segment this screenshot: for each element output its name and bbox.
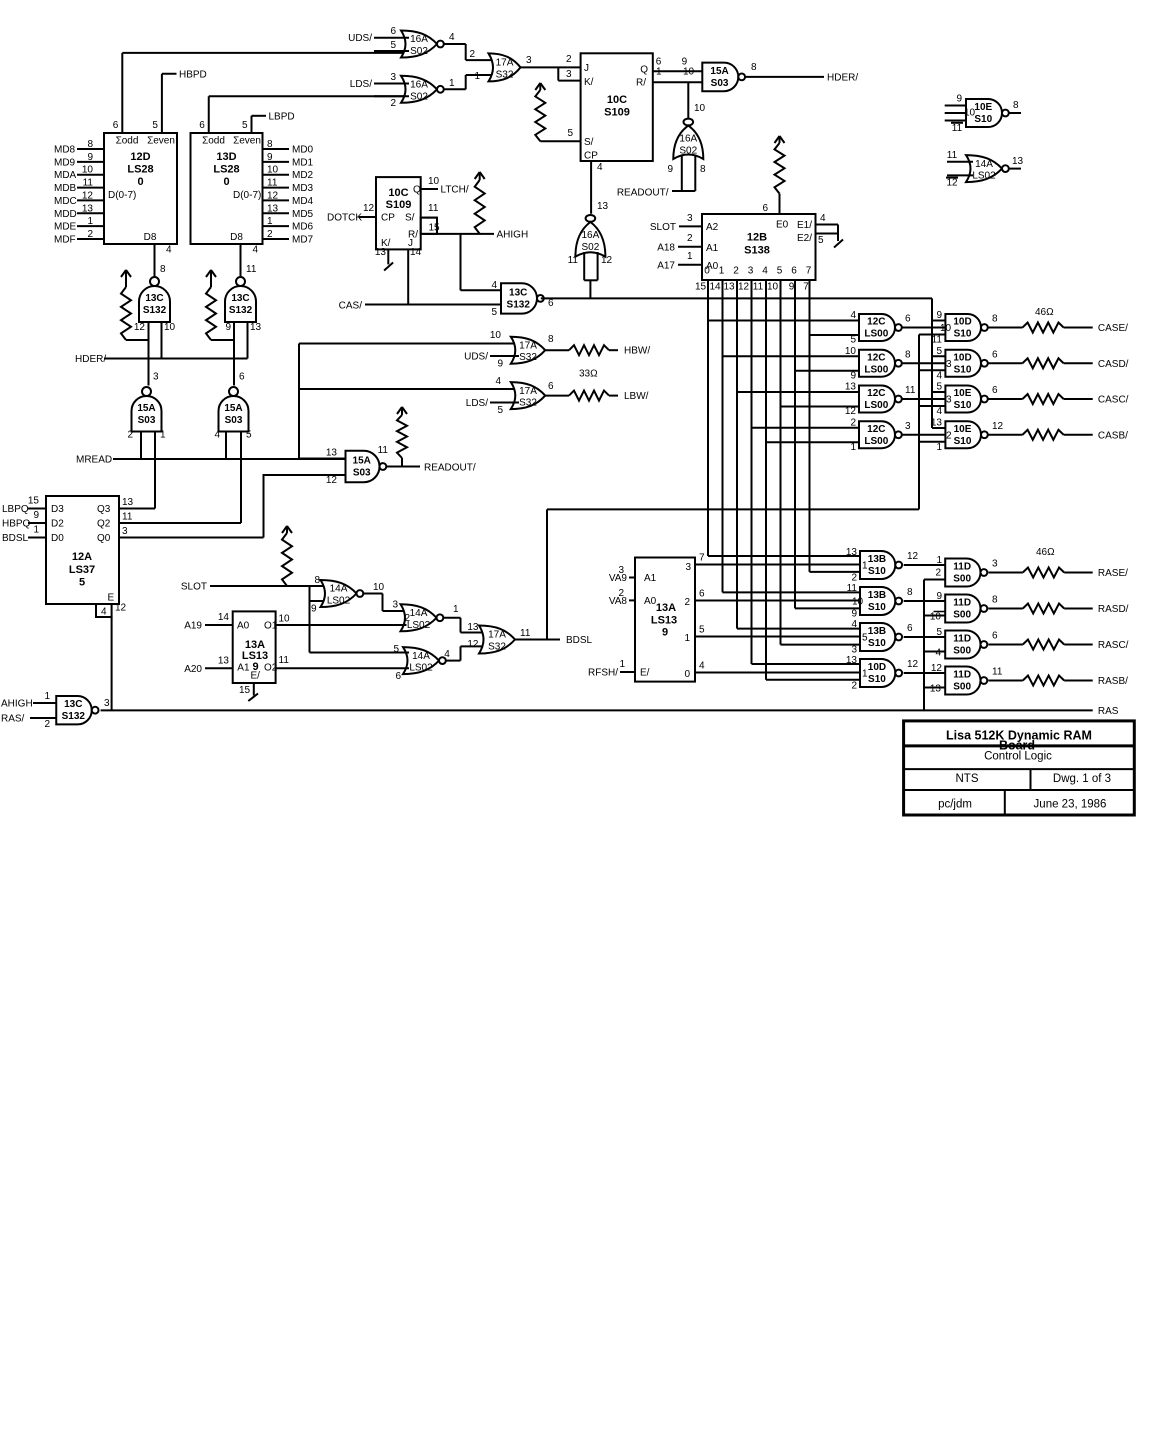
svg-text:3: 3 [687, 213, 693, 224]
svg-text:17A: 17A [519, 386, 537, 397]
svg-text:Σodd: Σodd [202, 136, 225, 147]
svg-text:S10: S10 [868, 602, 886, 613]
svg-text:R/: R/ [636, 78, 646, 89]
svg-text:CP: CP [584, 151, 598, 162]
svg-text:LBPQ: LBPQ [2, 504, 29, 515]
svg-text:2: 2 [851, 573, 857, 584]
svg-text:LS28: LS28 [213, 164, 239, 176]
svg-text:11: 11 [932, 335, 943, 346]
svg-text:S32: S32 [488, 642, 506, 653]
svg-text:S132: S132 [62, 711, 86, 722]
svg-text:13: 13 [930, 684, 942, 695]
svg-text:13: 13 [250, 322, 262, 333]
svg-text:10: 10 [964, 108, 976, 119]
svg-text:S109: S109 [604, 107, 630, 119]
svg-text:10: 10 [694, 103, 706, 114]
svg-text:5: 5 [242, 120, 248, 131]
svg-text:11D: 11D [953, 634, 971, 645]
svg-text:S10: S10 [954, 436, 972, 447]
svg-text:Q3: Q3 [97, 504, 111, 515]
svg-text:1: 1 [850, 442, 856, 453]
svg-text:9: 9 [936, 310, 942, 321]
svg-text:D(0-7): D(0-7) [108, 190, 136, 201]
svg-text:RAS/: RAS/ [1, 714, 25, 725]
svg-text:10D: 10D [953, 317, 971, 328]
svg-text:K/: K/ [584, 77, 594, 88]
svg-text:15: 15 [695, 282, 707, 293]
svg-text:Q: Q [640, 65, 648, 76]
svg-text:3: 3 [905, 421, 911, 432]
svg-text:12: 12 [907, 551, 919, 562]
svg-text:5: 5 [79, 577, 85, 589]
svg-text:46Ω: 46Ω [1036, 547, 1055, 558]
svg-text:11D: 11D [953, 562, 971, 573]
svg-text:10: 10 [267, 165, 279, 176]
svg-text:12: 12 [115, 603, 127, 614]
svg-text:RASD/: RASD/ [1098, 604, 1129, 615]
svg-text:S03: S03 [138, 415, 156, 426]
svg-text:CASE/: CASE/ [1098, 323, 1128, 334]
svg-text:1: 1 [862, 561, 868, 572]
svg-text:Σeven: Σeven [147, 136, 175, 147]
svg-text:13: 13 [375, 247, 387, 258]
svg-text:9: 9 [851, 609, 857, 620]
svg-text:3: 3 [685, 562, 691, 573]
svg-text:CASC/: CASC/ [1098, 395, 1129, 406]
svg-text:10: 10 [940, 323, 952, 334]
svg-text:16A: 16A [410, 80, 428, 91]
svg-text:1: 1 [719, 266, 725, 277]
svg-text:6: 6 [762, 203, 768, 214]
svg-text:HBPQ: HBPQ [2, 519, 31, 530]
svg-text:E/: E/ [251, 670, 261, 681]
svg-text:2: 2 [44, 719, 50, 730]
svg-text:LS02: LS02 [409, 663, 433, 674]
svg-text:12: 12 [992, 421, 1004, 432]
svg-text:1: 1 [862, 669, 868, 680]
svg-text:9: 9 [667, 164, 673, 175]
svg-text:MD0: MD0 [292, 145, 314, 156]
svg-text:13: 13 [846, 655, 858, 666]
svg-text:D0: D0 [51, 533, 64, 544]
svg-text:6: 6 [239, 372, 245, 383]
svg-text:14: 14 [709, 282, 721, 293]
svg-text:10: 10 [164, 322, 176, 333]
svg-text:9: 9 [87, 152, 93, 163]
svg-text:6: 6 [791, 266, 797, 277]
svg-text:8: 8 [87, 139, 93, 150]
svg-text:1: 1 [684, 633, 690, 644]
svg-text:13: 13 [326, 448, 338, 459]
svg-text:S10: S10 [868, 638, 886, 649]
svg-text:4: 4 [166, 245, 172, 256]
svg-text:12C: 12C [867, 424, 885, 435]
svg-text:11: 11 [122, 512, 133, 523]
svg-text:DOTCK: DOTCK [327, 213, 362, 224]
svg-text:S03: S03 [711, 78, 729, 89]
svg-text:A19: A19 [184, 621, 202, 632]
svg-text:11: 11 [847, 583, 858, 594]
svg-text:S109: S109 [386, 199, 412, 211]
svg-text:S10: S10 [868, 566, 886, 577]
svg-text:10: 10 [373, 582, 385, 593]
svg-text:12A: 12A [72, 551, 92, 563]
svg-text:S03: S03 [353, 468, 371, 479]
svg-text:9: 9 [497, 359, 503, 370]
svg-text:10E: 10E [954, 424, 972, 435]
svg-text:7: 7 [806, 266, 812, 277]
svg-text:4: 4 [936, 370, 942, 381]
svg-text:2: 2 [733, 266, 739, 277]
svg-text:S32: S32 [496, 69, 514, 80]
svg-text:46Ω: 46Ω [1035, 307, 1054, 318]
svg-text:S02: S02 [410, 91, 428, 102]
svg-text:8: 8 [267, 139, 273, 150]
svg-text:MDB: MDB [54, 183, 77, 194]
svg-text:10: 10 [683, 66, 695, 77]
svg-text:Dwg. 1 of 3: Dwg. 1 of 3 [1053, 773, 1111, 785]
svg-text:1: 1 [267, 216, 273, 227]
svg-text:14: 14 [218, 612, 230, 623]
svg-text:5: 5 [390, 40, 396, 51]
svg-text:10D: 10D [868, 662, 886, 673]
svg-text:1: 1 [87, 216, 93, 227]
svg-text:13B: 13B [868, 590, 886, 601]
svg-text:10: 10 [428, 176, 440, 187]
svg-text:CASB/: CASB/ [1098, 430, 1128, 441]
svg-text:4: 4 [762, 266, 768, 277]
svg-text:12: 12 [267, 190, 279, 201]
svg-text:RFSH/: RFSH/ [588, 668, 618, 679]
svg-text:5: 5 [567, 128, 573, 139]
svg-text:6: 6 [113, 120, 119, 131]
svg-text:14A: 14A [412, 651, 430, 662]
svg-text:MDF: MDF [54, 234, 76, 245]
svg-text:15A: 15A [224, 403, 242, 414]
svg-text:11: 11 [279, 655, 290, 666]
svg-text:6: 6 [992, 385, 998, 396]
svg-text:3: 3 [392, 600, 398, 611]
svg-text:HBW/: HBW/ [624, 346, 650, 357]
svg-text:LS13: LS13 [651, 615, 677, 627]
svg-text:12: 12 [931, 663, 943, 674]
svg-text:13: 13 [122, 497, 134, 508]
svg-text:S00: S00 [953, 646, 971, 657]
svg-text:S32: S32 [519, 352, 537, 363]
svg-text:12C: 12C [867, 388, 885, 399]
svg-text:S10: S10 [954, 364, 972, 375]
svg-text:MD6: MD6 [292, 222, 314, 233]
svg-text:MD4: MD4 [292, 196, 314, 207]
svg-text:2: 2 [851, 681, 857, 692]
svg-text:8: 8 [700, 164, 706, 175]
svg-text:0: 0 [137, 176, 143, 188]
svg-text:UDS/: UDS/ [464, 352, 488, 363]
svg-text:3: 3 [618, 565, 624, 576]
svg-text:UDS/: UDS/ [348, 33, 372, 44]
svg-text:2: 2 [687, 233, 693, 244]
svg-text:CAS/: CAS/ [339, 301, 363, 312]
svg-text:LS00: LS00 [864, 364, 888, 375]
svg-text:13: 13 [845, 382, 857, 393]
svg-text:4: 4 [850, 310, 856, 321]
svg-text:17A: 17A [488, 630, 506, 641]
svg-text:15: 15 [239, 685, 251, 696]
svg-text:8: 8 [992, 314, 998, 325]
svg-text:3: 3 [122, 526, 128, 537]
svg-text:LDS/: LDS/ [350, 79, 372, 90]
svg-text:11: 11 [905, 385, 916, 396]
svg-text:MDA: MDA [54, 170, 77, 181]
svg-text:10: 10 [845, 346, 857, 357]
svg-text:10: 10 [767, 282, 779, 293]
svg-text:11: 11 [952, 123, 963, 134]
svg-text:9: 9 [850, 370, 856, 381]
svg-text:S02: S02 [582, 242, 600, 253]
svg-text:1: 1 [160, 430, 166, 441]
svg-text:S10: S10 [954, 400, 972, 411]
svg-text:6: 6 [992, 631, 998, 642]
svg-text:13: 13 [597, 201, 609, 212]
svg-text:8: 8 [905, 349, 911, 360]
svg-text:10: 10 [930, 612, 942, 623]
svg-text:3: 3 [851, 645, 857, 656]
svg-text:MD2: MD2 [292, 170, 314, 181]
svg-text:12: 12 [845, 406, 857, 417]
svg-text:AHIGH: AHIGH [1, 699, 33, 710]
svg-text:2: 2 [404, 613, 410, 624]
svg-text:4: 4 [491, 280, 497, 291]
svg-text:13: 13 [82, 203, 94, 214]
svg-text:MDC: MDC [54, 196, 77, 207]
svg-text:LDS/: LDS/ [466, 398, 488, 409]
svg-text:5: 5 [491, 307, 497, 318]
svg-text:BDSL: BDSL [2, 533, 29, 544]
svg-text:33Ω: 33Ω [579, 369, 598, 380]
svg-text:11: 11 [520, 628, 531, 639]
svg-text:12: 12 [467, 639, 479, 650]
svg-text:S/: S/ [405, 213, 415, 224]
svg-text:READOUT/: READOUT/ [617, 188, 669, 199]
svg-text:A1: A1 [644, 573, 657, 584]
svg-text:CP: CP [381, 213, 395, 224]
svg-text:LS13: LS13 [242, 650, 268, 662]
svg-text:15: 15 [28, 496, 40, 507]
svg-text:8: 8 [1013, 100, 1019, 111]
svg-text:1: 1 [936, 555, 942, 566]
svg-text:13B: 13B [868, 626, 886, 637]
svg-text:MD8: MD8 [54, 145, 76, 156]
svg-text:S02: S02 [410, 46, 428, 57]
svg-text:12B: 12B [747, 232, 767, 244]
svg-text:14A: 14A [410, 608, 428, 619]
svg-text:8: 8 [314, 575, 320, 586]
svg-text:6: 6 [548, 298, 554, 309]
svg-text:A17: A17 [657, 261, 675, 272]
svg-text:2: 2 [684, 597, 690, 608]
svg-text:2: 2 [87, 229, 93, 240]
svg-text:5: 5 [699, 625, 705, 636]
svg-text:13: 13 [218, 656, 230, 667]
svg-text:15A: 15A [137, 403, 155, 414]
svg-text:S03: S03 [225, 415, 243, 426]
svg-text:16A: 16A [582, 230, 600, 241]
svg-text:LS00: LS00 [864, 329, 888, 340]
svg-text:Control Logic: Control Logic [984, 751, 1052, 763]
svg-text:11: 11 [428, 203, 439, 214]
svg-text:1: 1 [474, 71, 480, 82]
svg-text:LS28: LS28 [127, 164, 153, 176]
svg-text:12D: 12D [130, 151, 150, 163]
svg-text:14A: 14A [330, 584, 348, 595]
svg-text:12C: 12C [867, 317, 885, 328]
svg-text:4: 4 [935, 648, 941, 659]
svg-text:MREAD: MREAD [76, 455, 112, 466]
svg-text:1: 1 [33, 525, 39, 536]
svg-text:4: 4 [936, 406, 942, 417]
svg-text:D8: D8 [230, 232, 243, 243]
svg-text:11: 11 [753, 282, 764, 293]
svg-text:D3: D3 [51, 504, 64, 515]
svg-text:J: J [584, 63, 589, 74]
svg-text:7: 7 [699, 553, 705, 564]
svg-text:A1: A1 [237, 663, 250, 674]
svg-text:4: 4 [101, 607, 107, 618]
svg-text:7: 7 [803, 282, 809, 293]
svg-text:9: 9 [311, 604, 317, 615]
svg-text:13A: 13A [656, 602, 676, 614]
svg-text:5: 5 [936, 627, 942, 638]
svg-text:Q: Q [413, 185, 421, 196]
svg-text:5: 5 [152, 120, 158, 131]
svg-text:13C: 13C [64, 699, 82, 710]
svg-text:1: 1 [936, 442, 942, 453]
svg-text:13: 13 [1012, 156, 1024, 167]
svg-text:2: 2 [390, 98, 396, 109]
svg-text:MD5: MD5 [292, 209, 314, 220]
svg-text:12: 12 [601, 255, 613, 266]
svg-text:14A: 14A [975, 159, 993, 170]
svg-text:4: 4 [214, 430, 220, 441]
svg-text:RASE/: RASE/ [1098, 568, 1128, 579]
svg-text:5: 5 [777, 266, 783, 277]
svg-text:15A: 15A [710, 66, 728, 77]
svg-text:6: 6 [992, 349, 998, 360]
svg-text:0: 0 [704, 266, 710, 277]
svg-text:13B: 13B [868, 554, 886, 565]
svg-text:9: 9 [789, 282, 795, 293]
svg-text:2: 2 [469, 49, 475, 60]
svg-text:E2/: E2/ [797, 233, 812, 244]
svg-text:Q2: Q2 [97, 519, 111, 530]
svg-text:0: 0 [684, 669, 690, 680]
svg-text:LS37: LS37 [69, 564, 95, 576]
svg-text:S/: S/ [584, 137, 594, 148]
svg-text:LBPD: LBPD [269, 112, 295, 123]
svg-text:4: 4 [699, 661, 705, 672]
svg-text:9: 9 [662, 627, 668, 639]
svg-text:13C: 13C [509, 287, 527, 298]
svg-text:12: 12 [134, 322, 146, 333]
svg-text:HBPD: HBPD [179, 70, 207, 81]
svg-text:11: 11 [568, 255, 579, 266]
svg-text:6: 6 [905, 314, 911, 325]
svg-text:3: 3 [566, 69, 572, 80]
svg-text:1: 1 [449, 78, 455, 89]
svg-text:Σeven: Σeven [233, 136, 261, 147]
svg-text:MD7: MD7 [292, 234, 314, 245]
svg-text:1: 1 [619, 659, 625, 670]
svg-text:1: 1 [453, 604, 459, 615]
svg-text:MD3: MD3 [292, 183, 314, 194]
svg-text:0: 0 [223, 176, 229, 188]
svg-text:13C: 13C [145, 293, 163, 304]
svg-text:9: 9 [267, 152, 273, 163]
svg-text:2: 2 [850, 417, 856, 428]
svg-text:S132: S132 [229, 305, 253, 316]
svg-text:2: 2 [618, 588, 624, 599]
svg-text:6: 6 [199, 120, 205, 131]
svg-text:10D: 10D [953, 352, 971, 363]
svg-text:13D: 13D [216, 151, 236, 163]
svg-text:8: 8 [160, 264, 166, 275]
svg-text:12: 12 [738, 282, 750, 293]
svg-text:5: 5 [936, 346, 942, 357]
svg-text:E: E [108, 593, 115, 604]
svg-text:3: 3 [104, 698, 110, 709]
svg-text:3: 3 [946, 395, 952, 406]
svg-text:S00: S00 [953, 682, 971, 693]
svg-text:12: 12 [82, 190, 94, 201]
svg-text:S138: S138 [744, 245, 770, 257]
svg-text:8: 8 [751, 62, 757, 73]
svg-text:CASD/: CASD/ [1098, 359, 1129, 370]
svg-text:1: 1 [44, 691, 50, 702]
svg-text:SLOT: SLOT [650, 222, 676, 233]
svg-text:A2: A2 [706, 222, 719, 233]
svg-text:HDER/: HDER/ [75, 354, 106, 365]
svg-text:9: 9 [956, 94, 962, 105]
svg-text:6: 6 [548, 381, 554, 392]
svg-text:A20: A20 [184, 664, 202, 675]
svg-text:16A: 16A [679, 134, 697, 145]
svg-text:6: 6 [699, 589, 705, 600]
svg-text:10: 10 [279, 613, 291, 624]
svg-text:pc/jdm: pc/jdm [938, 799, 972, 811]
svg-text:1: 1 [656, 66, 662, 77]
svg-text:S00: S00 [953, 574, 971, 585]
svg-text:A18: A18 [657, 243, 675, 254]
svg-text:NTS: NTS [956, 773, 979, 785]
svg-text:10C: 10C [388, 187, 408, 199]
svg-text:5: 5 [497, 405, 503, 416]
svg-text:June 23, 1986: June 23, 1986 [1034, 799, 1107, 811]
svg-text:13: 13 [467, 622, 479, 633]
svg-text:LS02: LS02 [972, 171, 996, 182]
svg-text:3: 3 [748, 266, 754, 277]
svg-text:4: 4 [597, 162, 603, 173]
svg-text:S10: S10 [868, 674, 886, 685]
svg-text:3: 3 [526, 55, 532, 66]
svg-text:10: 10 [82, 165, 94, 176]
svg-text:MD1: MD1 [292, 157, 314, 168]
svg-text:MDE: MDE [54, 222, 77, 233]
svg-text:S10: S10 [954, 329, 972, 340]
svg-text:11: 11 [992, 667, 1003, 678]
svg-text:3: 3 [992, 559, 998, 570]
svg-text:A1: A1 [706, 243, 719, 254]
svg-text:10: 10 [852, 597, 864, 608]
